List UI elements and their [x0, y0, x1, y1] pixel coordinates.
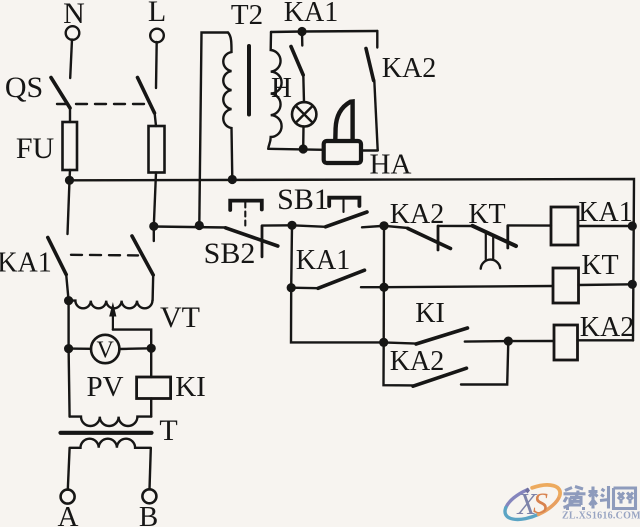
wire	[119, 347, 151, 350]
bus line 2	[154, 227, 226, 228]
node lamp bottom	[299, 144, 308, 153]
node KA2 coil row	[504, 337, 513, 346]
node bus2-L	[149, 222, 158, 231]
wire	[465, 340, 509, 343]
switch QS pole 1 blade	[51, 78, 70, 109]
terminal A	[61, 490, 75, 504]
terminal B	[142, 489, 156, 503]
svg-text:KA2: KA2	[390, 199, 444, 230]
contact KT delay dome	[481, 260, 501, 269]
watermark CJK wang	[614, 488, 636, 509]
wire	[578, 339, 634, 341]
transformer VT coil	[69, 301, 153, 309]
wire	[384, 342, 416, 343]
switch KA1 pole1 wire from bus1	[68, 180, 70, 234]
wire coil KA1 to right bus	[578, 225, 632, 227]
terminal L	[150, 29, 164, 43]
watermark logo ellipse ring	[500, 478, 565, 527]
pushbutton SB2 blade	[226, 228, 278, 246]
watermark sparkle	[525, 488, 530, 494]
wire	[292, 225, 326, 227]
pushbutton SB1 stem	[342, 200, 344, 212]
wire SB2 to node	[262, 224, 292, 227]
wire KI row left	[291, 288, 384, 343]
transformer T secondary	[70, 439, 151, 448]
wire	[362, 226, 384, 228]
wire to coil KA2	[508, 340, 554, 343]
relay coil KI	[137, 377, 171, 399]
wire KI coil bottom	[150, 399, 152, 417]
contact KA1 blade (seal-in)	[318, 270, 365, 288]
svg-text:KI: KI	[175, 371, 206, 403]
coil KA2	[554, 325, 578, 360]
wire KA2 parallel branch	[384, 342, 414, 385]
pushbutton SB1 cap	[329, 198, 359, 206]
contact KT blade	[473, 226, 517, 246]
wire fuse1 to bus1	[68, 170, 71, 180]
wire	[302, 75, 305, 102]
wire	[69, 107, 71, 122]
wire	[438, 225, 474, 228]
wire	[69, 347, 91, 350]
watermark CJK liao	[589, 486, 610, 509]
pushbutton SB2 cap	[230, 201, 262, 210]
svg-text:KT: KT	[468, 199, 505, 230]
svg-text:QS: QS	[5, 71, 43, 104]
svg-text:V: V	[97, 338, 115, 364]
contact KA1 (lamp branch) wire	[301, 32, 304, 46]
switch QS pole 2 blade	[138, 78, 155, 114]
wire T2 sec top to node	[271, 30, 302, 33]
node right bus KT	[628, 280, 637, 289]
svg-text:KA1: KA1	[284, 0, 338, 28]
node meter right	[147, 344, 156, 353]
node bus1-fuse1	[65, 176, 74, 185]
svg-text:KA1: KA1	[578, 197, 632, 228]
contact KI blade	[416, 328, 468, 344]
voltmeter PV	[91, 335, 119, 363]
svg-text:B: B	[139, 501, 158, 527]
svg-text:SB1: SB1	[277, 183, 329, 216]
wire	[579, 283, 633, 286]
switch KA1 pole2 blade	[132, 236, 153, 275]
coil KT	[553, 268, 579, 303]
bell HA horn	[335, 102, 352, 141]
node T2-bus2	[195, 221, 204, 230]
contact KT seat	[506, 226, 509, 248]
svg-text:KA1: KA1	[0, 248, 52, 279]
wire B	[150, 448, 151, 489]
svg-text:H: H	[271, 72, 292, 104]
wire T2 primary left	[199, 33, 228, 226]
wire left branch vertical	[290, 225, 293, 287]
transformer T2 primary coil	[223, 33, 232, 180]
KA1 linkage dashed	[71, 254, 138, 257]
pushbutton SB2 stem dashed	[244, 203, 246, 229]
wire wiper to meter branch	[113, 330, 151, 349]
wire	[155, 112, 157, 126]
transformer T2 secondary coil	[268, 32, 281, 149]
node lamp top	[297, 27, 306, 36]
pushbutton SB2 seat	[261, 226, 264, 257]
svg-text:HA: HA	[370, 149, 412, 181]
transformer T primary	[70, 417, 152, 426]
svg-text:KT: KT	[581, 250, 618, 281]
wire lamp bottom	[302, 127, 305, 150]
contact KA2 seat	[437, 226, 440, 250]
lamp H	[292, 102, 316, 126]
node right of SB1	[379, 221, 388, 230]
svg-text:L: L	[148, 0, 166, 28]
svg-text:N: N	[63, 0, 85, 30]
node KA1 row right	[379, 283, 388, 292]
svg-text:T: T	[159, 414, 177, 447]
svg-text:FU: FU	[16, 132, 55, 165]
node right bus KA1	[628, 221, 637, 230]
svg-text:PV: PV	[86, 371, 123, 403]
svg-text:KA2: KA2	[390, 346, 444, 377]
wire	[374, 81, 377, 151]
wire HA right	[361, 149, 378, 151]
switch KA1 pole1 blade	[48, 238, 66, 275]
bus line 1	[70, 179, 635, 341]
wire	[291, 287, 318, 290]
contact KA2 blade (parallel)	[413, 368, 467, 386]
svg-text:ZL.XS1616.COM: ZL.XS1616.COM	[562, 511, 640, 522]
wire KT to KA1 coil	[508, 224, 551, 227]
svg-text:A: A	[58, 501, 79, 527]
node T2-bus1	[228, 175, 237, 184]
watermark CJK zi	[564, 487, 586, 509]
contact KA2 (seal-in row) wire	[384, 226, 408, 228]
contact KA2 blade	[408, 229, 451, 249]
wire H-circuit bottom	[268, 149, 324, 150]
wire right vertical SB1 node down	[383, 226, 386, 343]
svg-text:KA1: KA1	[296, 245, 350, 276]
fuse FU 1	[63, 122, 78, 170]
T2 core bar	[247, 46, 251, 115]
wire A	[68, 448, 70, 489]
wire N stem	[70, 40, 72, 79]
contact KT delay stems	[485, 234, 487, 260]
node SB junction	[287, 221, 296, 230]
svg-text:SB2: SB2	[204, 237, 256, 270]
wire left vertical to T	[69, 349, 70, 417]
terminal N	[66, 26, 80, 40]
wire	[151, 275, 154, 301]
VT wiper arrow	[112, 308, 114, 330]
wire top to KA2 branch	[302, 30, 377, 33]
wire	[66, 275, 68, 301]
contact KA2 blade	[366, 49, 374, 81]
node KI row	[379, 338, 388, 347]
wire KI coil top	[150, 348, 152, 377]
wire	[461, 341, 508, 384]
node KA1 row left	[287, 283, 296, 292]
pushbutton SB1 blade	[326, 212, 368, 227]
node meter left	[64, 344, 73, 353]
wire fuse2 down to bus2	[154, 173, 156, 227]
svg-text:VT: VT	[160, 301, 200, 334]
wire left vertical	[67, 301, 69, 349]
wire L stem	[155, 42, 158, 88]
coil KA1	[551, 207, 578, 245]
bell HA body	[324, 141, 361, 163]
switch KA1 pole2 wire from bus2	[153, 226, 155, 241]
T core bars	[61, 431, 152, 435]
wire KT coil row	[384, 286, 553, 287]
contact KA2 (bell branch) wire	[376, 31, 378, 48]
svg-text:T2: T2	[231, 0, 263, 31]
fuse FU 2	[149, 126, 165, 173]
svg-text:KA2: KA2	[580, 312, 634, 343]
QS linkage dashed	[57, 103, 148, 105]
wire	[361, 286, 384, 288]
svg-text:KA2: KA2	[382, 53, 436, 84]
svg-text:S: S	[533, 487, 548, 520]
svg-text:KI: KI	[415, 298, 445, 329]
contact KA1 blade	[291, 47, 303, 76]
node VT left	[64, 296, 73, 305]
